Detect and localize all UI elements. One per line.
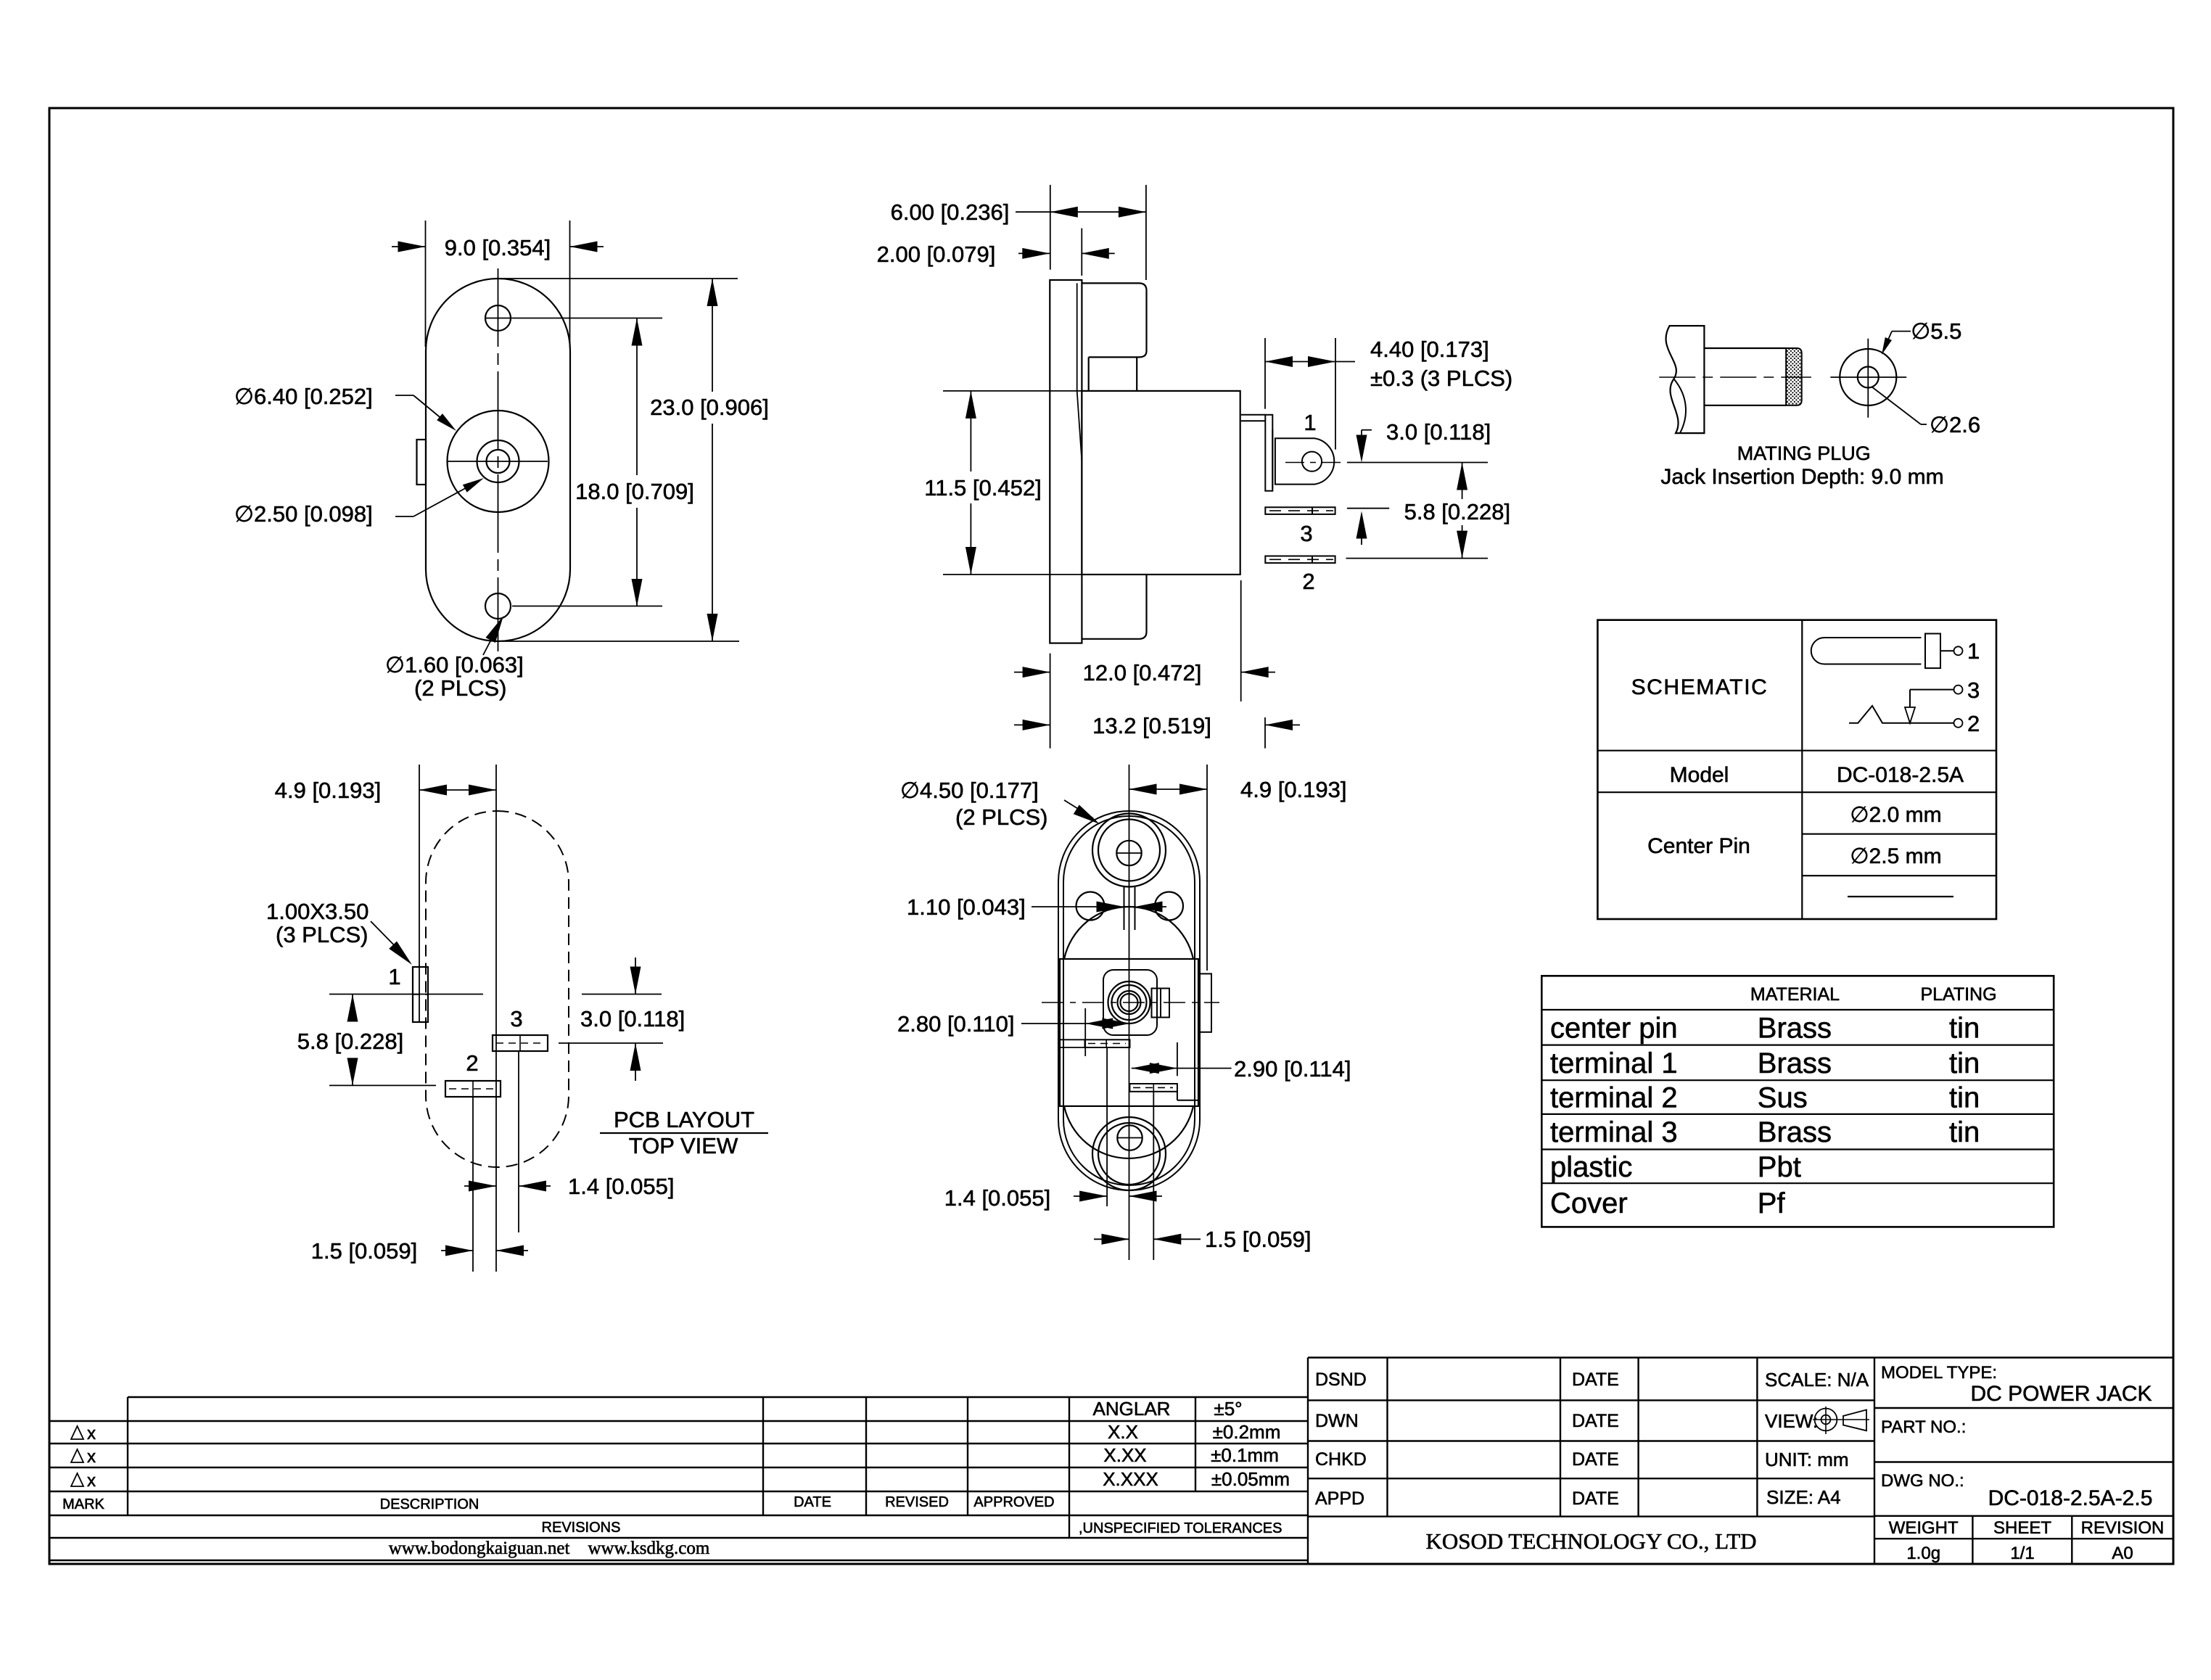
svg-text:A0: A0 bbox=[2112, 1544, 2133, 1563]
dimension 3.0 [0.118] pcb reference line right bbox=[559, 1042, 663, 1044]
schematic wire to terminal 3 bbox=[1910, 689, 1953, 691]
svg-text:DATE: DATE bbox=[794, 1494, 831, 1510]
revision mark triangle row3 bbox=[71, 1473, 83, 1486]
svg-text:x: x bbox=[87, 1447, 96, 1467]
svg-text:Pbt: Pbt bbox=[1758, 1151, 1801, 1183]
dimension 4.9 [0.193] pcb arrows and text bbox=[419, 789, 496, 791]
side view neck below top barrel bbox=[1088, 357, 1090, 391]
svg-text:REVISED: REVISED bbox=[885, 1494, 949, 1510]
svg-text:center pin: center pin bbox=[1550, 1012, 1678, 1044]
material table outer box bbox=[1541, 976, 2054, 1227]
front view left locating tab bbox=[417, 440, 427, 485]
approval table row lines bbox=[1308, 1399, 1874, 1401]
front view top mounting hole Ø1.60 bbox=[485, 305, 511, 331]
approval table top line bbox=[1308, 1356, 2173, 1358]
svg-text:MARK: MARK bbox=[62, 1496, 104, 1512]
svg-text:3: 3 bbox=[1300, 521, 1312, 546]
terminal 1 hole bbox=[1302, 452, 1322, 472]
svg-text:1.5 [0.059]: 1.5 [0.059] bbox=[1205, 1227, 1312, 1252]
right block weight sheet dividers bbox=[1972, 1516, 1973, 1564]
schematic terminal 2 node circle bbox=[1954, 719, 1963, 728]
svg-text:DC-018-2.5A: DC-018-2.5A bbox=[1837, 763, 1964, 787]
mating plug barrel bbox=[1704, 347, 1786, 349]
pad 1 rectangle bbox=[413, 967, 428, 1022]
svg-text:Brass: Brass bbox=[1758, 1012, 1832, 1044]
svg-text:1: 1 bbox=[1967, 638, 1980, 664]
front view horizontal centerline of barrel circle bbox=[448, 461, 548, 462]
terminal 3 pad bottom view bbox=[1085, 1039, 1130, 1047]
svg-text:5.8 [0.228]: 5.8 [0.228] bbox=[1404, 499, 1511, 524]
dimension 23.0 [0.906] line with arrows bbox=[712, 279, 713, 392]
revisions table revised column line bbox=[865, 1397, 867, 1515]
bottom view small rect right of boss bbox=[1152, 989, 1170, 1018]
dimension 1.10 [0.043] line and arrows bbox=[1032, 906, 1109, 907]
svg-text:1.5 [0.059]: 1.5 [0.059] bbox=[311, 1238, 418, 1264]
svg-text:3: 3 bbox=[1967, 678, 1980, 703]
terminal 1 step block on body edge bbox=[1241, 414, 1265, 416]
schematic wire to terminal 1 bbox=[1940, 650, 1953, 651]
svg-text:terminal 1: terminal 1 bbox=[1550, 1047, 1678, 1079]
svg-text:3.0 [0.118]: 3.0 [0.118] bbox=[580, 1006, 685, 1032]
svg-text:REVISION: REVISION bbox=[2081, 1518, 2165, 1538]
svg-text:(2 PLCS): (2 PLCS) bbox=[955, 804, 1047, 830]
dimension 2.90 [0.114] reference line bbox=[1177, 1042, 1178, 1076]
dimension 11.5 [0.452] line with arrows bbox=[970, 391, 971, 472]
extension line through bottom hole bbox=[512, 606, 662, 607]
dimension 4.40 [0.173] extension lines bbox=[1264, 338, 1266, 409]
svg-text:X.XXX: X.XXX bbox=[1103, 1468, 1158, 1490]
revisions table approved column line bbox=[967, 1397, 968, 1515]
dimension 3.0 [0.118] leader and arrows bbox=[1362, 429, 1372, 431]
bottom view inner arc of barrel bbox=[1064, 907, 1193, 959]
dimension 4.40 [0.173] arrows bbox=[1265, 361, 1335, 363]
svg-text:,UNSPECIFIED TOLERANCES: ,UNSPECIFIED TOLERANCES bbox=[1079, 1520, 1282, 1536]
svg-text:DC POWER JACK: DC POWER JACK bbox=[1970, 1382, 2152, 1406]
svg-text:tin: tin bbox=[1949, 1047, 1980, 1079]
side view top barrel outline bbox=[1082, 283, 1146, 357]
terminal 3 pin strip bbox=[1265, 507, 1335, 514]
terminal 1 crimp band bbox=[1265, 415, 1272, 491]
middle table left boundary bbox=[1307, 1358, 1309, 1565]
revisions table mark column line bbox=[127, 1397, 128, 1515]
svg-text:X.X: X.X bbox=[1108, 1421, 1138, 1443]
dimension 1.4 [0.055] pcb arrows and text bbox=[464, 1185, 496, 1187]
svg-text:DC-018-2.5A-2.5: DC-018-2.5A-2.5 bbox=[1988, 1486, 2153, 1510]
schematic symbol sleeve contact block bbox=[1925, 634, 1940, 669]
bottom view outer stadium outline bbox=[1058, 811, 1200, 1190]
svg-text:±0.1mm: ±0.1mm bbox=[1211, 1444, 1279, 1466]
svg-text:1.00X3.50: 1.00X3.50 bbox=[266, 899, 368, 924]
terminal 2 pin strip bbox=[1265, 556, 1335, 564]
svg-text:±0.2mm: ±0.2mm bbox=[1213, 1421, 1281, 1443]
svg-text:9.0 [0.354]: 9.0 [0.354] bbox=[445, 235, 551, 260]
svg-text:∅5.5: ∅5.5 bbox=[1911, 318, 1961, 344]
svg-text:terminal 2: terminal 2 bbox=[1550, 1082, 1678, 1114]
pad 2 rectangle bbox=[445, 1081, 501, 1097]
svg-text:3: 3 bbox=[510, 1006, 522, 1032]
material table row line 5 bbox=[1541, 1148, 2054, 1150]
svg-text:PCB LAYOUT: PCB LAYOUT bbox=[614, 1107, 754, 1132]
bottom view vertical centerline bbox=[1129, 765, 1130, 1260]
svg-text:terminal 3: terminal 3 bbox=[1550, 1116, 1678, 1148]
svg-text:MODEL TYPE:: MODEL TYPE: bbox=[1881, 1363, 1997, 1383]
svg-text:DSND: DSND bbox=[1315, 1370, 1367, 1390]
material table row line 6 bbox=[1541, 1182, 2054, 1184]
svg-text:SCHEMATIC: SCHEMATIC bbox=[1631, 675, 1769, 699]
svg-text:∅6.40 [0.252]: ∅6.40 [0.252] bbox=[234, 384, 373, 409]
bottom view step outline near terminal 2 bbox=[1177, 1092, 1178, 1100]
schematic table row line 2 bbox=[1597, 791, 1996, 793]
pad 3 rectangle bbox=[493, 1035, 548, 1051]
svg-text:DATE: DATE bbox=[1572, 1370, 1619, 1390]
svg-text:DWN: DWN bbox=[1315, 1411, 1359, 1431]
dimension 13.2 [0.519] arrows and text bbox=[1014, 724, 1050, 725]
mating plug front view crosshair bbox=[1867, 339, 1869, 418]
mating plug grip body with break lines bbox=[1666, 326, 1705, 433]
material table row line 3 bbox=[1541, 1079, 2054, 1081]
svg-text:APPD: APPD bbox=[1315, 1488, 1364, 1509]
pcb layout dashed stadium outline bbox=[426, 811, 569, 1167]
svg-text:CHKD: CHKD bbox=[1315, 1449, 1367, 1470]
dimension 18.0 [0.709] line with arrows bbox=[636, 318, 638, 476]
tolerance block left boundary bbox=[1069, 1397, 1070, 1538]
schematic table center pin row line 1 bbox=[1802, 833, 1996, 835]
svg-text:SCALE: N/A: SCALE: N/A bbox=[1765, 1369, 1869, 1391]
schematic table row line 1 bbox=[1597, 750, 1996, 752]
dimension 2.00 [0.079] extension and arrows bbox=[1081, 228, 1082, 276]
terminal 3 reference stub line bbox=[1347, 508, 1389, 509]
svg-text:∅4.50 [0.177]: ∅4.50 [0.177] bbox=[900, 778, 1039, 803]
pad 1 horizontal reference line left bbox=[329, 994, 483, 995]
svg-text:18.0 [0.709]: 18.0 [0.709] bbox=[575, 479, 694, 504]
bottom view concentric circles of center pin bbox=[1108, 981, 1150, 1024]
svg-text:2: 2 bbox=[1302, 569, 1314, 594]
dimension 1.5 [0.059] bottom view arrows and text bbox=[1094, 1238, 1129, 1240]
pad 1 horizontal reference line right bbox=[582, 994, 662, 995]
center pin blank row underline bbox=[1848, 896, 1953, 897]
bottom view small circle right bbox=[1155, 892, 1183, 921]
front view vertical centerline bbox=[498, 268, 499, 651]
svg-text:Cover: Cover bbox=[1550, 1187, 1628, 1219]
svg-text:UNIT: mm: UNIT: mm bbox=[1765, 1449, 1849, 1470]
dimension 4.9 [0.193] bottom view arrows and text bbox=[1129, 788, 1208, 790]
bottom view inner stadium outline bbox=[1063, 816, 1195, 1185]
mating plug front view outer circle Ø5.5 bbox=[1840, 349, 1896, 405]
svg-text:SHEET: SHEET bbox=[1993, 1518, 2051, 1538]
svg-text:MATING PLUG: MATING PLUG bbox=[1737, 442, 1871, 464]
bottom view right bump bbox=[1198, 973, 1211, 1032]
svg-text:DWG NO.:: DWG NO.: bbox=[1881, 1471, 1964, 1491]
extension line bottom of stadium bbox=[502, 641, 739, 642]
bottom view bottom boss circle bbox=[1092, 1117, 1166, 1190]
approval table column lines bbox=[1386, 1358, 1388, 1517]
bottom view top boss circle bbox=[1092, 814, 1166, 887]
svg-text:1.10 [0.043]: 1.10 [0.043] bbox=[907, 894, 1026, 920]
svg-text:PLATING: PLATING bbox=[1920, 984, 1996, 1005]
svg-text:www.bodongkaiguan.net www.k: www.bodongkaiguan.net www.ksdkg.com bbox=[389, 1539, 710, 1558]
svg-text:TOP VIEW: TOP VIEW bbox=[629, 1133, 738, 1158]
bottom view center pin boss outline bbox=[1103, 970, 1157, 1035]
svg-text:DESCRIPTION: DESCRIPTION bbox=[380, 1496, 479, 1512]
pcb layout pad1 vertical extension line bbox=[419, 765, 420, 1022]
svg-text:tin: tin bbox=[1949, 1116, 1980, 1148]
svg-text:MATERIAL: MATERIAL bbox=[1750, 984, 1840, 1005]
svg-text:±5°: ±5° bbox=[1214, 1398, 1242, 1420]
revision mark triangle row2 bbox=[71, 1449, 83, 1462]
dimension 4.9 [0.193] bottom view extension line bbox=[1206, 765, 1208, 971]
svg-text:3.0 [0.118]: 3.0 [0.118] bbox=[1386, 419, 1491, 445]
svg-text:KOSOD TECHNOLOGY CO., LTD: KOSOD TECHNOLOGY CO., LTD bbox=[1425, 1528, 1756, 1554]
svg-text:4.9 [0.193]: 4.9 [0.193] bbox=[275, 778, 382, 803]
dimension 1.4 [0.055] bottom view arrows and text bbox=[1074, 1195, 1107, 1197]
svg-text:VIEW:: VIEW: bbox=[1765, 1410, 1818, 1432]
terminal 1 reference line bbox=[1347, 462, 1488, 464]
dimension 12.0 [0.472] extension lines bbox=[1050, 654, 1051, 749]
schematic wire terminal 2 with lever bbox=[1849, 706, 1953, 723]
bottom view top screw hole with slot bbox=[1116, 841, 1141, 865]
dimension 5.8 [0.228] line with arrows bbox=[1462, 463, 1463, 500]
svg-text:∅1.60 [0.063]: ∅1.60 [0.063] bbox=[385, 652, 524, 678]
front view center pin circle Ø2.50 bbox=[487, 450, 510, 473]
svg-text:2.00 [0.079]: 2.00 [0.079] bbox=[877, 242, 996, 267]
dimension 1.5 [0.059] bottom view extension line bbox=[1153, 1092, 1154, 1260]
dimension 3.0 [0.118] pcb arrows bbox=[635, 958, 636, 995]
svg-text:2: 2 bbox=[1967, 711, 1980, 736]
bottom view center slot lines bbox=[1124, 886, 1125, 930]
svg-text:WEIGHT: WEIGHT bbox=[1889, 1518, 1959, 1538]
svg-text:1: 1 bbox=[1304, 410, 1316, 435]
svg-text:5.8 [0.228]: 5.8 [0.228] bbox=[297, 1029, 404, 1054]
dimension 11.5 [0.452] extension lines bbox=[943, 390, 1082, 392]
dimension 2.80 [0.110] reference line bbox=[1084, 1008, 1086, 1056]
svg-text:2.90 [0.114]: 2.90 [0.114] bbox=[1234, 1056, 1351, 1082]
terminal 2 pad bottom view bbox=[1129, 1084, 1177, 1092]
svg-text:2.80 [0.110]: 2.80 [0.110] bbox=[897, 1011, 1014, 1037]
svg-text:DATE: DATE bbox=[1572, 1449, 1619, 1470]
mating plug knurled tip bbox=[1786, 348, 1801, 405]
svg-text:1.0g: 1.0g bbox=[1906, 1544, 1940, 1563]
svg-text:x: x bbox=[87, 1424, 96, 1444]
dimension 6.00 [0.236] extension and arrows bbox=[1050, 185, 1051, 270]
dimension 1.4 [0.055] bottom view extension line bbox=[1106, 1047, 1108, 1206]
svg-text:12.0 [0.472]: 12.0 [0.472] bbox=[1083, 660, 1202, 685]
revisions table date column line bbox=[762, 1397, 764, 1515]
svg-text:PART NO.:: PART NO.: bbox=[1881, 1417, 1966, 1437]
svg-text:2: 2 bbox=[466, 1050, 478, 1076]
mating plug front view inner circle Ø2.6 bbox=[1858, 367, 1879, 388]
tolerance block divider bbox=[1195, 1397, 1196, 1491]
svg-text:1.4 [0.055]: 1.4 [0.055] bbox=[944, 1185, 1051, 1211]
side view lower barrel outline bbox=[1082, 575, 1146, 639]
svg-text:Brass: Brass bbox=[1758, 1116, 1832, 1148]
revisions table horizontal lines bbox=[128, 1396, 1308, 1398]
svg-text:(3 PLCS): (3 PLCS) bbox=[276, 922, 368, 947]
pad 2 horizontal reference line left bbox=[329, 1084, 436, 1086]
svg-text:6.00 [0.236]: 6.00 [0.236] bbox=[891, 199, 1010, 225]
right block left boundary bbox=[1874, 1358, 1875, 1565]
front view barrel outer circle Ø6.40 bbox=[448, 411, 549, 512]
material table row line 1 bbox=[1541, 1009, 2054, 1010]
dimension 13.2 [0.519] extension line bbox=[1264, 717, 1266, 749]
svg-text:23.0 [0.906]: 23.0 [0.906] bbox=[650, 395, 769, 420]
svg-text:∅2.0 mm: ∅2.0 mm bbox=[1850, 803, 1941, 827]
pad 2 center extension line down bbox=[472, 1097, 474, 1272]
svg-text:4.9 [0.193]: 4.9 [0.193] bbox=[1240, 777, 1347, 802]
svg-text:REVISIONS: REVISIONS bbox=[542, 1520, 621, 1536]
side view flange plate bbox=[1050, 280, 1082, 643]
svg-text:Brass: Brass bbox=[1758, 1047, 1832, 1079]
svg-text:∅2.5 mm: ∅2.5 mm bbox=[1850, 844, 1941, 868]
revision mark triangle row1 bbox=[71, 1426, 83, 1439]
extension line top of stadium bbox=[501, 278, 738, 279]
pad 3 center extension line down bbox=[518, 1051, 519, 1232]
svg-text:tin: tin bbox=[1949, 1082, 1980, 1114]
schematic table outer box bbox=[1597, 620, 1996, 919]
svg-text:13.2 [0.519]: 13.2 [0.519] bbox=[1092, 713, 1211, 738]
bottom view bottom screw hole with slot bbox=[1117, 1125, 1142, 1150]
schematic table center pin row line 2 bbox=[1802, 875, 1996, 876]
terminal 1 centerline through hole bbox=[1285, 462, 1343, 464]
front view inner circle bbox=[477, 440, 519, 482]
svg-text:APPROVED: APPROVED bbox=[973, 1494, 1054, 1510]
bottom view dashed horizontal centerline bbox=[1042, 1002, 1219, 1003]
svg-text:4.40 [0.173]: 4.40 [0.173] bbox=[1370, 337, 1489, 362]
terminal 2 reference line bbox=[1346, 558, 1489, 559]
svg-text:Jack Insertion Depth: 9.0 mm: Jack Insertion Depth: 9.0 mm bbox=[1660, 465, 1943, 489]
svg-text:±0.05mm: ±0.05mm bbox=[1211, 1468, 1290, 1490]
dimension 1.5 [0.059] pcb arrows and text bbox=[441, 1250, 473, 1251]
svg-text:Center Pin: Center Pin bbox=[1647, 834, 1750, 858]
svg-text:±0.3 (3 PLCS): ±0.3 (3 PLCS) bbox=[1370, 366, 1512, 391]
svg-text:∅2.6: ∅2.6 bbox=[1930, 412, 1980, 437]
dimension 9.0 [0.354] arrows and text bbox=[392, 246, 426, 247]
svg-text:Pf: Pf bbox=[1758, 1187, 1786, 1219]
material table row line 4 bbox=[1541, 1113, 2054, 1115]
dimension 12.0 [0.472] arrows and text bbox=[1014, 672, 1050, 673]
bottom view central block rectangle bbox=[1060, 959, 1198, 1106]
svg-text:1.4 [0.055]: 1.4 [0.055] bbox=[568, 1174, 675, 1199]
material table row line 2 bbox=[1541, 1044, 2054, 1045]
schematic table vertical divider bbox=[1801, 620, 1803, 919]
front view flange stadium outline bbox=[426, 279, 570, 641]
side view main body rectangle bbox=[1082, 391, 1240, 575]
svg-text:DATE: DATE bbox=[1572, 1411, 1619, 1431]
terminal 1 solder lug with hole bbox=[1275, 438, 1334, 484]
svg-text:Sus: Sus bbox=[1758, 1082, 1808, 1114]
svg-text:(2 PLCS): (2 PLCS) bbox=[414, 675, 506, 701]
dimension 2.90 [0.114] arrows and text bbox=[1132, 1068, 1232, 1069]
schematic switch pin drop with open arrowhead bbox=[1909, 690, 1911, 707]
dimension 9.0 [0.354] extension lines bbox=[425, 221, 427, 347]
schematic terminal 3 node circle bbox=[1954, 685, 1963, 694]
bottom view lower inner arc of barrel bbox=[1064, 1106, 1193, 1158]
front view bottom mounting hole Ø1.60 bbox=[485, 593, 511, 619]
svg-text:Model: Model bbox=[1670, 763, 1729, 787]
svg-text:plastic: plastic bbox=[1550, 1151, 1632, 1183]
svg-text:tin: tin bbox=[1949, 1012, 1980, 1044]
side view body left inner diagonal bbox=[1077, 391, 1082, 461]
svg-text:SIZE: A4: SIZE: A4 bbox=[1766, 1486, 1841, 1508]
svg-text:11.5 [0.452]: 11.5 [0.452] bbox=[924, 475, 1041, 501]
svg-text:X.XX: X.XX bbox=[1103, 1444, 1146, 1466]
side view flange inner edge line bbox=[1076, 283, 1078, 391]
extension line through top hole bbox=[485, 318, 662, 319]
svg-text:x: x bbox=[87, 1471, 96, 1491]
right block row lines bbox=[1874, 1407, 2173, 1409]
svg-text:DATE: DATE bbox=[1572, 1488, 1619, 1509]
dimension 2.80 [0.110] arrows and text bbox=[1021, 1023, 1129, 1024]
dimension 5.8 [0.228] pcb line with arrows bbox=[352, 995, 353, 1021]
svg-text:1: 1 bbox=[388, 964, 400, 989]
schematic terminal 1 node circle bbox=[1954, 646, 1963, 655]
svg-text:1/1: 1/1 bbox=[2010, 1544, 2034, 1563]
bottom view small circle left bbox=[1076, 892, 1105, 921]
svg-text:∅2.50 [0.098]: ∅2.50 [0.098] bbox=[234, 501, 373, 527]
pcb layout vertical centerline bbox=[495, 765, 497, 1272]
mating plug centerline bbox=[1659, 376, 1811, 378]
schematic symbol plug pill bbox=[1811, 638, 1922, 664]
svg-text:ANGLAR: ANGLAR bbox=[1093, 1398, 1171, 1420]
